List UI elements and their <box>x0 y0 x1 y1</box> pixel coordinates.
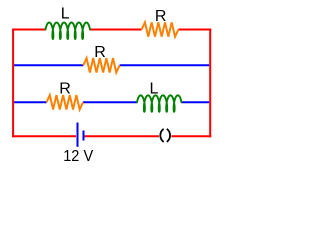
connector ) right paren <box>167 129 170 142</box>
wire: middle blue segment left of R2 <box>14 64 83 66</box>
label L (inductor L1) <box>61 6 70 23</box>
wire: bottom red segment right of connector <box>171 135 211 137</box>
battery B1 short plate (-) <box>83 131 85 141</box>
wire: lower blue segment right of L2 <box>182 101 210 103</box>
wire: top red segment between L and R <box>90 29 142 31</box>
wire: top red segment right of R <box>178 29 211 31</box>
label R (resistor R3) <box>59 81 71 98</box>
svg-text:R: R <box>155 8 167 25</box>
inductor L2 (lower row) <box>137 95 182 112</box>
wire: bottom red segment between battery and connector <box>85 135 159 137</box>
wire: bottom red segment left of battery <box>12 135 76 137</box>
svg-text:R: R <box>94 44 106 61</box>
resistor R3 (lower row) <box>47 95 84 109</box>
svg-text:12 V: 12 V <box>63 148 93 165</box>
resistor R1 (top row) <box>142 22 179 36</box>
svg-text:R: R <box>59 81 71 98</box>
inductor L1 (top row) <box>46 23 91 40</box>
svg-text:L: L <box>149 80 158 97</box>
wire: top red segment left of L <box>12 29 45 31</box>
wire: middle blue segment right of R2 <box>120 64 210 66</box>
connector ( left paren <box>160 129 163 142</box>
wire: right red vertical <box>209 29 211 138</box>
wire: lower blue segment between R3 and L2 <box>83 101 137 103</box>
label R (resistor R1) <box>155 8 167 25</box>
wire: left red vertical <box>12 29 14 138</box>
resistor R2 (middle row) <box>83 58 119 72</box>
label 12 V (battery value) <box>63 148 93 165</box>
label L (inductor L2) <box>149 80 158 97</box>
label R (resistor R2) <box>94 44 106 61</box>
battery B1 long plate (+) <box>77 123 79 147</box>
wire: lower blue segment left of R3 <box>14 101 46 103</box>
svg-text:L: L <box>61 6 70 23</box>
